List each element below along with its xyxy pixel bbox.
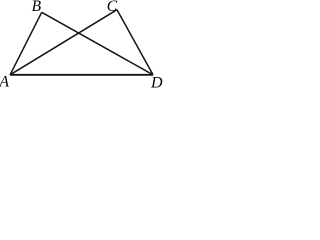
svg-text:A: A: [0, 73, 10, 88]
segment BD: [42, 12, 153, 75]
segment AC: [10, 10, 117, 75]
segment AB: [10, 12, 42, 75]
segment AD: [10, 74, 153, 76]
svg-text:B: B: [32, 0, 42, 15]
svg-text:C: C: [107, 0, 118, 15]
wire: [10, 10, 153, 75]
svg-text:D: D: [150, 74, 163, 88]
segment CD: [117, 10, 153, 75]
